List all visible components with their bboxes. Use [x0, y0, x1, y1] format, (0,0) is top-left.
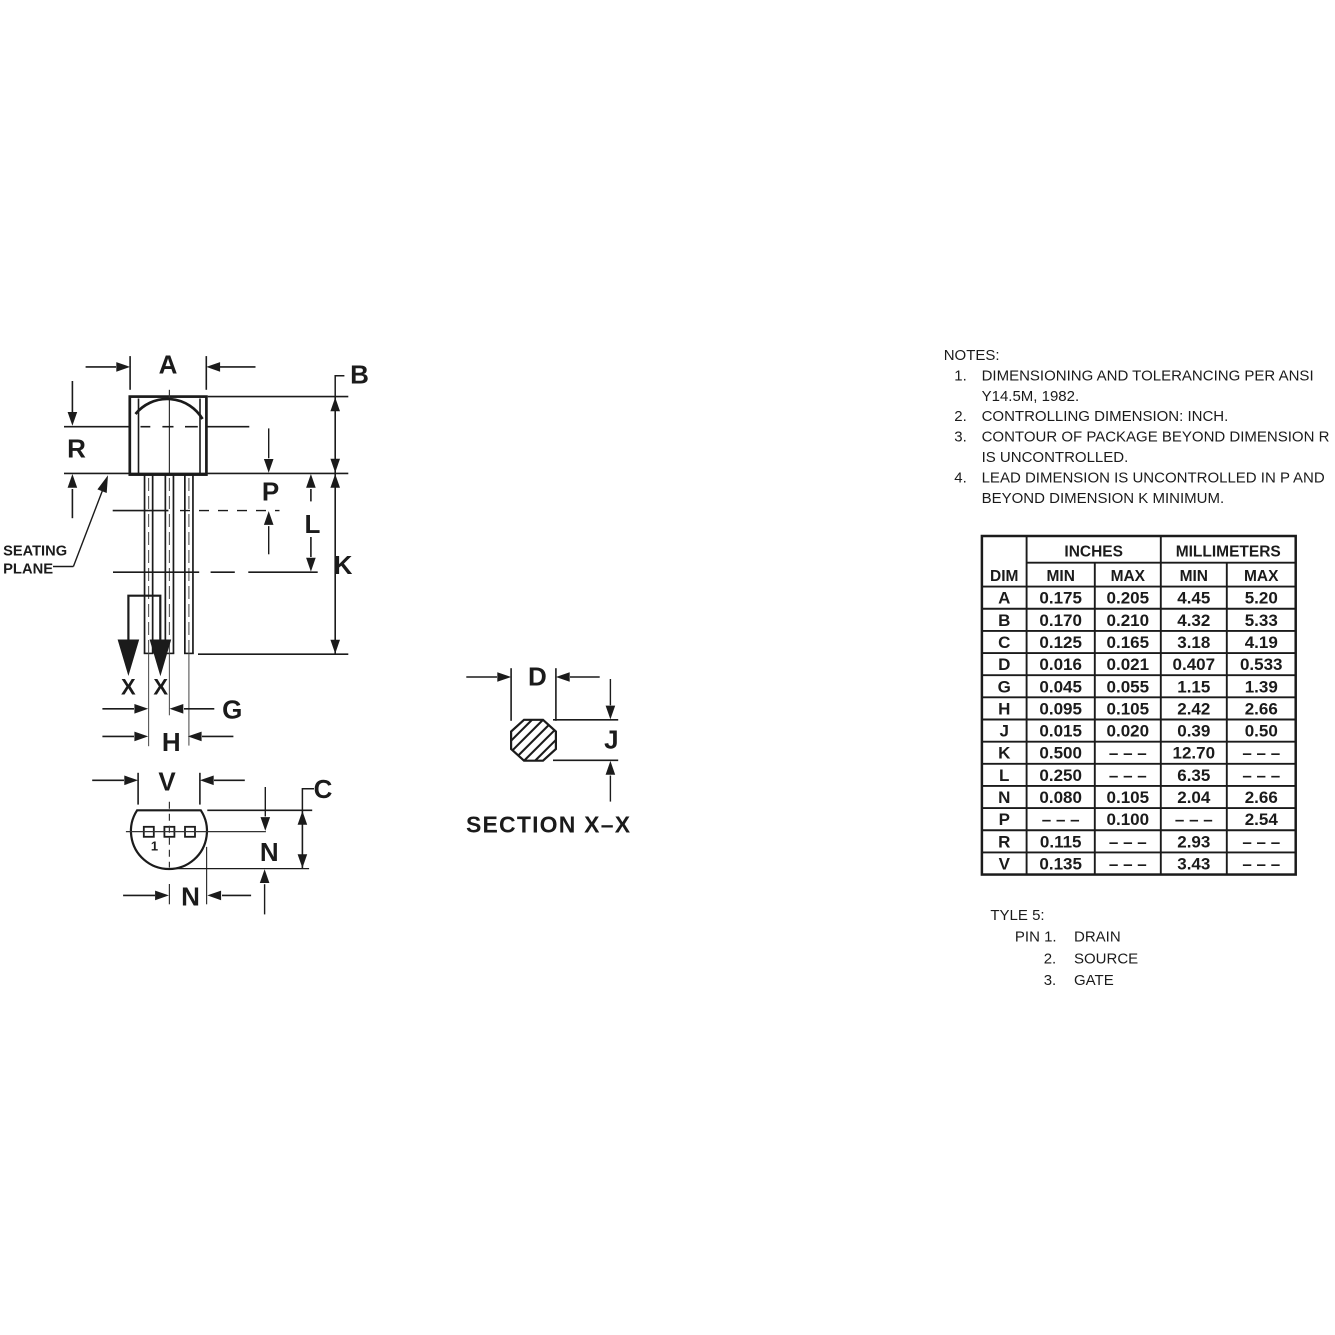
svg-text:3.43: 3.43 — [1177, 854, 1210, 873]
svg-text:1: 1 — [151, 838, 158, 853]
svg-text:SECTION X–X: SECTION X–X — [466, 812, 631, 838]
svg-text:5.33: 5.33 — [1245, 611, 1278, 630]
svg-text:MAX: MAX — [1111, 568, 1146, 585]
svg-text:DIM: DIM — [990, 568, 1018, 585]
svg-text:0.533: 0.533 — [1240, 655, 1283, 674]
svg-text:2.66: 2.66 — [1245, 699, 1278, 718]
svg-text:0.095: 0.095 — [1039, 699, 1082, 718]
svg-text:INCHES: INCHES — [1064, 544, 1123, 561]
svg-text:0.015: 0.015 — [1039, 722, 1082, 741]
svg-text:J: J — [1000, 722, 1009, 741]
svg-text:0.016: 0.016 — [1039, 655, 1082, 674]
svg-text:2.66: 2.66 — [1245, 788, 1278, 807]
svg-text:X: X — [153, 675, 168, 700]
svg-text:D: D — [528, 662, 547, 692]
svg-text:4.: 4. — [954, 470, 967, 487]
svg-text:H: H — [162, 727, 181, 757]
svg-text:1.15: 1.15 — [1177, 677, 1210, 696]
svg-text:TYLE 5:: TYLE 5: — [990, 907, 1044, 924]
svg-text:CONTROLLING DIMENSION: INCH.: CONTROLLING DIMENSION: INCH. — [982, 408, 1229, 425]
svg-text:2.: 2. — [954, 408, 967, 425]
svg-text:G: G — [998, 677, 1011, 696]
svg-text:0.175: 0.175 — [1039, 589, 1082, 608]
svg-text:– – –: – – – — [1175, 810, 1213, 829]
svg-text:0.250: 0.250 — [1039, 766, 1082, 785]
svg-text:B: B — [350, 360, 369, 390]
svg-text:0.080: 0.080 — [1039, 788, 1082, 807]
svg-text:MILLIMETERS: MILLIMETERS — [1176, 544, 1281, 561]
svg-text:0.105: 0.105 — [1107, 699, 1150, 718]
svg-text:0.50: 0.50 — [1245, 722, 1278, 741]
svg-text:V: V — [158, 767, 176, 797]
svg-text:0.100: 0.100 — [1107, 810, 1150, 829]
svg-text:– – –: – – – — [1242, 854, 1280, 873]
svg-text:K: K — [998, 744, 1011, 763]
svg-text:N: N — [260, 837, 279, 867]
svg-text:R: R — [67, 434, 86, 464]
svg-text:– – –: – – – — [1242, 744, 1280, 763]
svg-text:0.39: 0.39 — [1177, 722, 1210, 741]
svg-text:N: N — [998, 788, 1010, 807]
svg-text:V: V — [999, 854, 1011, 873]
svg-text:– – –: – – – — [1042, 810, 1080, 829]
svg-text:5.20: 5.20 — [1245, 589, 1278, 608]
svg-text:– – –: – – – — [1109, 832, 1147, 851]
svg-text:0.021: 0.021 — [1107, 655, 1150, 674]
svg-text:– – –: – – – — [1109, 766, 1147, 785]
svg-text:B: B — [998, 611, 1010, 630]
svg-text:– – –: – – – — [1109, 854, 1147, 873]
svg-text:4.32: 4.32 — [1177, 611, 1210, 630]
svg-text:0.055: 0.055 — [1107, 677, 1150, 696]
svg-text:BEYOND DIMENSION K MINIMUM.: BEYOND DIMENSION K MINIMUM. — [982, 490, 1225, 507]
svg-text:2.: 2. — [1044, 950, 1057, 967]
svg-text:G: G — [222, 695, 242, 725]
svg-text:SEATING: SEATING — [3, 544, 67, 560]
svg-text:3.: 3. — [1044, 972, 1057, 989]
svg-text:0.105: 0.105 — [1107, 788, 1150, 807]
svg-text:L: L — [999, 766, 1009, 785]
svg-text:0.165: 0.165 — [1107, 633, 1150, 652]
svg-text:GATE: GATE — [1074, 972, 1114, 989]
svg-text:PLANE: PLANE — [3, 562, 53, 578]
svg-text:NOTES:: NOTES: — [944, 347, 1000, 364]
svg-text:SOURCE: SOURCE — [1074, 950, 1138, 967]
svg-text:N: N — [181, 882, 200, 912]
svg-text:D: D — [998, 655, 1010, 674]
svg-text:MIN: MIN — [1180, 568, 1208, 585]
svg-text:4.45: 4.45 — [1177, 589, 1210, 608]
svg-text:0.020: 0.020 — [1107, 722, 1150, 741]
svg-text:– – –: – – – — [1109, 744, 1147, 763]
svg-text:P: P — [999, 810, 1010, 829]
svg-text:MIN: MIN — [1046, 568, 1074, 585]
svg-text:DIMENSIONING AND TOLERANCING P: DIMENSIONING AND TOLERANCING PER ANSI — [982, 367, 1314, 384]
svg-text:0.115: 0.115 — [1040, 832, 1082, 851]
svg-text:3.: 3. — [954, 429, 967, 446]
svg-text:H: H — [998, 699, 1010, 718]
svg-text:X: X — [121, 675, 136, 700]
svg-text:3.18: 3.18 — [1177, 633, 1210, 652]
svg-text:2.42: 2.42 — [1177, 699, 1210, 718]
svg-text:0.407: 0.407 — [1173, 655, 1216, 674]
svg-text:0.205: 0.205 — [1107, 589, 1150, 608]
svg-text:P: P — [262, 477, 279, 507]
svg-text:2.04: 2.04 — [1177, 788, 1211, 807]
svg-text:J: J — [604, 725, 618, 755]
svg-text:0.170: 0.170 — [1039, 611, 1082, 630]
svg-text:0.135: 0.135 — [1039, 854, 1082, 873]
svg-text:4.19: 4.19 — [1245, 633, 1278, 652]
svg-text:Y14.5M, 1982.: Y14.5M, 1982. — [982, 388, 1080, 405]
svg-text:6.35: 6.35 — [1177, 766, 1210, 785]
svg-text:1.: 1. — [954, 367, 967, 384]
svg-text:– – –: – – – — [1242, 766, 1280, 785]
svg-text:C: C — [998, 633, 1010, 652]
svg-text:PIN 1.: PIN 1. — [1015, 929, 1057, 946]
svg-text:MAX: MAX — [1244, 568, 1279, 585]
svg-text:0.210: 0.210 — [1107, 611, 1150, 630]
svg-text:DRAIN: DRAIN — [1074, 929, 1121, 946]
svg-text:CONTOUR OF PACKAGE BEYOND DIME: CONTOUR OF PACKAGE BEYOND DIMENSION R — [982, 429, 1330, 446]
svg-text:2.93: 2.93 — [1177, 832, 1210, 851]
svg-text:– – –: – – – — [1242, 832, 1280, 851]
svg-text:IS UNCONTROLLED.: IS UNCONTROLLED. — [982, 449, 1129, 466]
svg-text:R: R — [998, 832, 1010, 851]
svg-text:C: C — [314, 774, 333, 804]
svg-text:A: A — [159, 350, 178, 380]
svg-text:A: A — [998, 589, 1010, 608]
svg-text:1.39: 1.39 — [1245, 677, 1278, 696]
svg-text:0.500: 0.500 — [1039, 744, 1082, 763]
svg-text:K: K — [334, 550, 353, 580]
svg-text:LEAD DIMENSION IS UNCONTROLLED: LEAD DIMENSION IS UNCONTROLLED IN P AND — [982, 470, 1325, 487]
svg-text:0.125: 0.125 — [1039, 633, 1082, 652]
svg-text:2.54: 2.54 — [1245, 810, 1279, 829]
svg-text:L: L — [305, 509, 321, 539]
svg-text:12.70: 12.70 — [1173, 744, 1216, 763]
svg-text:0.045: 0.045 — [1039, 677, 1082, 696]
